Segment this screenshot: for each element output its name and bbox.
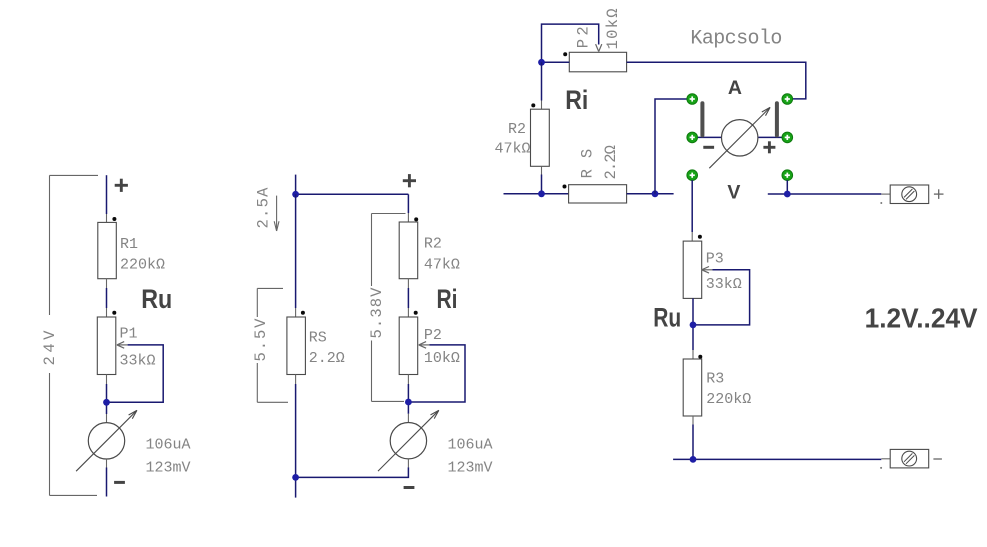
label R2 (circuit 3) [508,121,526,138]
meter M2 (106uA, circuit 2) [378,410,439,471]
label 24V [41,330,59,366]
svg-text:5.38V: 5.38V [368,287,386,339]
svg-text:24V: 24V [41,330,59,366]
potentiometer P2 (circuit 2) [399,317,429,375]
terminal mid-left (green) [687,132,698,143]
wire P3 to R3 [692,298,694,359]
svg-text:10kΩ: 10kΩ [604,8,622,49]
junction node P2/R2 (circuit 3) [538,59,545,66]
svg-text:P1: P1 [120,326,138,343]
junction node RS right (circuit 3) [652,190,659,197]
label 123mV (circuit 1) [146,460,191,477]
label Ri (circuit 3) [565,85,588,115]
bracket 5.5V [257,288,288,402]
junction node V row (circuit 3) [784,191,791,198]
node P3 top pin dot [698,235,702,239]
label 106uA (circuit 1) [146,437,191,454]
wire bottom rail (circuit 3) [673,458,881,460]
node RS left pin dot (circuit 3) [563,185,567,189]
svg-text:Ru: Ru [653,303,681,333]
label P1 [120,326,138,343]
resistor RS (circuit 2) [287,317,306,375]
label P2 (circuit 2) [424,327,442,344]
wire + rail to R1 [106,175,108,222]
label - (ammeter) [703,146,714,149]
label Ru (circuit 1) [141,284,172,314]
wire main rail left segment (circuit 3) [504,193,569,195]
potentiometer P2 (circuit 3, horizontal) [569,52,626,72]
wire P3 wiper loop [693,270,750,325]
label 33kΩ (P3 value) [706,276,742,293]
node P2 top pin dot (circuit 2) [414,311,418,315]
label 2.5A (current) [254,187,272,229]
label V (voltmeter) [727,181,740,203]
svg-text:123mV: 123mV [146,460,191,477]
svg-text:47kΩ: 47kΩ [495,141,531,158]
terminal block - (screw) [890,449,929,468]
junction node bottom-left (circuit 2) [292,474,299,481]
ammeter A (circuit 3) [709,107,770,168]
switch bar left [700,103,704,135]
node P2 left pin dot (circuit 3) [563,52,567,56]
label - (negative terminal, circuit 2) [404,486,415,489]
terminal mid-right (green) [782,132,793,143]
svg-text:1.2V..24V: 1.2V..24V [865,303,979,334]
wire junction up to ammeter switch (circuit 3) [655,99,687,194]
potentiometer P1 [97,317,127,375]
label Ru (circuit 3) [653,303,681,333]
label + (positive terminal, circuit 2) [403,174,416,187]
terminal bottom-left (green) [687,170,698,181]
svg-text:10kΩ: 10kΩ [424,350,460,367]
svg-text:R3: R3 [706,370,724,387]
potentiometer P3 [683,241,712,298]
label Kapcsolo (switch) [690,28,782,51]
label + (positive terminal, circuit 1) [115,179,128,192]
svg-text:220kΩ: 220kΩ [120,257,165,274]
node P1 top pin dot [112,311,116,315]
junction node (P2 bottom / wiper, circuit 2) [405,399,412,406]
label - (negative terminal, circuit 1) [114,481,125,484]
svg-text:33kΩ: 33kΩ [706,276,742,293]
node RS top pin dot (circuit 2) [301,311,305,315]
label 220kΩ (R3 value) [706,391,751,408]
svg-text:106uA: 106uA [146,437,191,454]
svg-text:R2: R2 [424,236,442,253]
junction node bottom (circuit 3) [690,456,697,463]
wire R2 to main rail (circuit 3) [541,166,543,194]
label P3 [706,250,724,267]
svg-text:220kΩ: 220kΩ [706,391,751,408]
resistor RS (circuit 3, horizontal) [569,185,627,203]
resistor R2 (circuit 2) [399,222,418,279]
svg-text:33kΩ: 33kΩ [120,353,156,370]
wire ammeter left (circuit 3) [697,136,721,138]
voltage source bracket 24V (left rail) [50,175,99,495]
label A (ammeter) [728,77,742,99]
junction node top-left (circuit 2) [292,191,299,198]
node R1 top pin dot [112,217,116,221]
svg-text:Ri: Ri [565,85,588,115]
svg-text:123mV: 123mV [448,460,493,477]
terminal block + (screw) [890,185,929,204]
label 1.2V..24V (output range) [865,303,979,334]
wire RS to bottom rail (circuit 2) [295,375,297,478]
wire bottom-right terminal down (circuit 3) [786,180,788,194]
label 47kΩ (R2 value, circuit 2) [424,257,460,274]
svg-text:2.5A: 2.5A [254,187,272,229]
label R3 [706,370,724,387]
wire R1 to P1 [106,279,108,317]
label RS (circuit 2) [309,330,327,347]
terminal top-right (green) [782,94,793,105]
label 5.38V [368,287,386,339]
svg-text:R1: R1 [120,236,138,253]
wire ammeter right (circuit 3) [758,136,782,138]
node R3 top pin dot [698,355,702,359]
junction node Ru (circuit 3) [690,322,697,329]
svg-text:Ru: Ru [141,284,172,314]
switch bar right [775,103,779,135]
label - (output terminal) [933,458,942,460]
wire P2 wiper loop (circuit 3) [542,24,602,62]
label 106uA (circuit 2) [448,437,493,454]
svg-text:2.2Ω: 2.2Ω [309,350,345,367]
svg-text:V: V [727,181,740,203]
resistor R3 [683,359,702,416]
node R2 top pin dot (circuit 2) [414,217,418,221]
meter M1 (106uA) [76,410,137,471]
bracket 5.38V [372,214,406,402]
label 33kΩ (P1 value) [120,353,156,370]
svg-text:2.2Ω: 2.2Ω [602,145,620,180]
label Ri (circuit 2) [437,284,458,314]
svg-text:5.5V: 5.5V [252,318,270,362]
svg-text:106uA: 106uA [448,437,493,454]
wire P1 wiper loop [107,345,164,402]
wire P2 wiper loop (circuit 2) [408,345,465,402]
label P2 (circuit 3) [574,26,592,48]
label 47kΩ (R2 value, circuit 3) [495,141,531,158]
junction node (P1 bottom / wiper, circuit 1) [103,399,110,406]
label 10kΩ (P2 value, circuit 3) [604,8,622,49]
wire bottom-left terminal to P3 (circuit 3) [691,180,693,241]
wire R3 to bottom rail [692,416,694,459]
wire R2 to P2 (circuit 2) [407,279,409,317]
wire P1 to meter [106,375,108,423]
wire top rail (circuit 2) [296,175,409,195]
node R2 top pin dot (circuit 3) [531,103,535,107]
wire meter to bottom rail (circuit 2) [296,459,409,498]
resistor R2 (circuit 3) [531,109,550,166]
wire P2 left to junction (circuit 3) [542,61,570,63]
terminal bottom-right (green) [782,170,793,181]
label 123mV (circuit 2) [448,460,493,477]
wire P2 out to switch (circuit 3) [627,62,806,99]
label R2 (circuit 2) [424,236,442,253]
svg-text:P2: P2 [424,327,442,344]
wire P2 to meter (circuit 2) [407,375,409,423]
label + (ammeter) [763,141,775,153]
current direction arrow 2.5A [274,196,279,231]
label RS (circuit 3) [579,149,597,179]
label 10kΩ (P2 value, circuit 2) [424,350,460,367]
wire top to RS (circuit 2) [295,194,297,317]
label 220kΩ (R1 value) [120,257,165,274]
wire meter to - rail [106,459,108,497]
wire junction to R2 (circuit 3) [541,62,543,109]
label 2.2Ω (RS value, circuit 2) [309,350,345,367]
svg-text:P3: P3 [706,250,724,267]
resistor R1 [98,222,117,278]
svg-text:RS: RS [309,330,327,347]
svg-text:Ri: Ri [437,284,458,314]
wire RS right / stub (circuit 3) [627,193,674,195]
label + (output terminal) [934,189,944,199]
pin to - terminal block [880,459,890,469]
wire V row to + terminal (circuit 3) [768,193,882,195]
terminal top-left (green) [687,94,698,105]
label R1 [120,236,138,253]
label 2.2Ω (RS value, circuit 3) [602,145,620,180]
wire + to R2 (circuit 2) [407,194,409,222]
svg-text:R2: R2 [508,121,526,138]
junction node R2 bottom (circuit 3) [538,190,545,197]
pin to + terminal block [880,194,890,204]
svg-text:47kΩ: 47kΩ [424,257,460,274]
label 5.5V [252,318,270,362]
svg-text:A: A [728,77,742,99]
svg-text:Kapcsolo: Kapcsolo [690,28,782,51]
